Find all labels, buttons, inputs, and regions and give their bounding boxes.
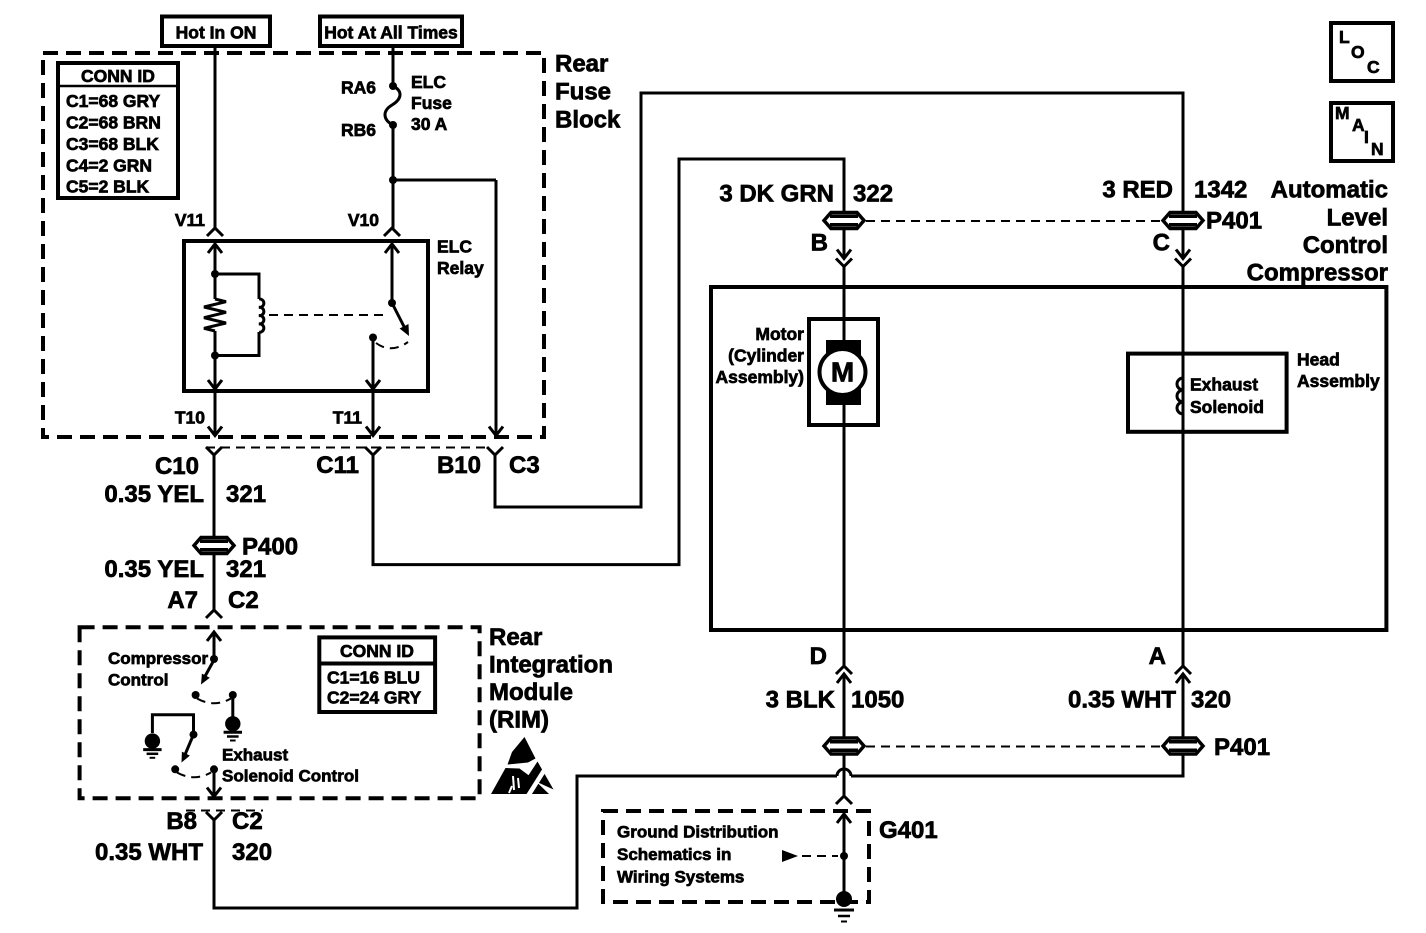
ground G401 <box>834 891 854 922</box>
svg-text:M: M <box>831 357 854 388</box>
svg-text:C10: C10 <box>155 453 199 480</box>
svg-text:Motor: Motor <box>755 324 804 344</box>
svg-text:Rear: Rear <box>555 51 608 78</box>
svg-text:1342: 1342 <box>1194 176 1247 203</box>
svg-text:B: B <box>811 229 828 256</box>
ground (RIM left) <box>143 733 161 757</box>
wire Hot At All Times to fuse <box>392 46 395 86</box>
node exhaust control contact <box>171 765 179 773</box>
connector lens P401 top <box>1163 207 1262 234</box>
svg-text:O: O <box>1351 42 1365 62</box>
label Motor (Cylinder Assembly) <box>715 324 804 387</box>
svg-text:C2=68 BRN: C2=68 BRN <box>66 113 161 133</box>
connector lens D (1050) <box>824 738 864 754</box>
node relay coil bottom <box>211 352 219 360</box>
svg-text:(Cylinder: (Cylinder <box>728 345 804 365</box>
fuse ELC Fuse 30A <box>341 72 452 140</box>
wire label 0.35 WHT 320 <box>95 839 272 866</box>
label Automatic Level Control Compressor <box>1247 176 1388 286</box>
svg-text:Rear: Rear <box>489 624 542 651</box>
connector A7 C2 <box>167 587 258 618</box>
wire relay T10 internal arrow <box>208 356 222 390</box>
svg-text:C2=24 GRY: C2=24 GRY <box>327 688 422 708</box>
relay switch input arrow <box>385 244 399 303</box>
connector G401 entry <box>836 796 938 844</box>
svg-text:0.35 YEL: 0.35 YEL <box>104 481 204 508</box>
svg-text:322: 322 <box>853 181 893 208</box>
wire P400 to A7 <box>213 554 216 610</box>
svg-text:N: N <box>1371 139 1384 159</box>
svg-text:CONN ID: CONN ID <box>340 641 414 661</box>
wire label 3 DK GRN 322 <box>719 181 893 208</box>
CONN ID table (fuse block) <box>58 63 178 198</box>
wire RIM output arrow <box>207 769 221 796</box>
svg-text:P401: P401 <box>1206 207 1262 234</box>
svg-text:L: L <box>1339 27 1350 47</box>
svg-text:I: I <box>1364 127 1369 147</box>
wire B10 to compressor C feed <box>495 93 1183 507</box>
svg-text:P401: P401 <box>1214 734 1270 761</box>
wire label 3 RED 1342 <box>1102 176 1247 203</box>
svg-text:C11: C11 <box>316 452 359 479</box>
connector V10 <box>348 210 400 236</box>
wire T10 to fuse block edge <box>175 391 222 436</box>
svg-text:A: A <box>1149 643 1166 670</box>
svg-text:C5=2 BLK: C5=2 BLK <box>66 177 150 197</box>
wire C10 to P400 <box>213 455 216 537</box>
svg-text:Solenoid Control: Solenoid Control <box>222 767 359 786</box>
wire right branch down to B10 <box>489 180 503 436</box>
node relay coil top <box>211 270 219 278</box>
dashed line D lens to P401 <box>866 746 1161 748</box>
svg-text:0.35 YEL: 0.35 YEL <box>104 556 204 583</box>
svg-text:Compressor: Compressor <box>1247 259 1388 286</box>
svg-text:0.35 WHT: 0.35 WHT <box>1068 687 1176 714</box>
label Exhaust Solenoid Control <box>222 746 359 786</box>
svg-text:RA6: RA6 <box>341 78 376 98</box>
box Hot At All Times <box>320 17 462 47</box>
svg-text:(RIM): (RIM) <box>489 707 549 734</box>
coil (relay winding) <box>215 274 264 356</box>
svg-text:321: 321 <box>226 481 266 508</box>
motor M1 <box>809 319 878 425</box>
svg-text:30 A: 30 A <box>411 114 448 134</box>
svg-text:C2: C2 <box>232 808 263 835</box>
svg-text:Solenoid: Solenoid <box>1190 397 1264 417</box>
connector C11 <box>316 447 381 479</box>
compressor box <box>711 287 1386 630</box>
connector C10 <box>155 447 222 480</box>
svg-text:Level: Level <box>1327 205 1388 232</box>
wire B to motor <box>843 267 846 631</box>
dashed arc compressor control <box>197 699 231 704</box>
LOC box <box>1331 23 1393 81</box>
wire fuse to V10 <box>392 125 395 228</box>
svg-text:D: D <box>810 643 827 670</box>
svg-text:Wiring Systems: Wiring Systems <box>617 868 744 887</box>
svg-text:T10: T10 <box>175 408 205 428</box>
svg-text:Integration: Integration <box>489 651 613 678</box>
svg-text:0.35 WHT: 0.35 WHT <box>95 839 203 866</box>
wire exhaust switch link <box>152 715 193 733</box>
exhaust solenoid box <box>1128 354 1287 432</box>
label Ground Distribution Schematics <box>617 823 778 887</box>
wire Hot In ON to V11 <box>214 46 217 228</box>
label Compressor Control <box>108 649 209 690</box>
svg-text:Head: Head <box>1297 350 1340 370</box>
svg-text:Automatic: Automatic <box>1271 176 1388 203</box>
svg-text:Control: Control <box>108 671 168 690</box>
svg-text:Hot In ON: Hot In ON <box>176 23 257 43</box>
svg-text:Assembly): Assembly) <box>715 367 804 387</box>
svg-text:3 DK GRN: 3 DK GRN <box>719 181 834 208</box>
svg-text:Compressor: Compressor <box>108 649 209 668</box>
svg-text:321: 321 <box>226 556 266 583</box>
connector B into compressor <box>811 229 852 267</box>
connector row dashed line B8 <box>186 810 263 812</box>
connector C into compressor <box>1153 229 1191 267</box>
coil exhaust solenoid <box>1177 378 1183 414</box>
connector lens 322 <box>824 213 864 229</box>
node G401 junction <box>840 852 848 860</box>
svg-text:B8: B8 <box>166 808 197 835</box>
label Rear Integration Module (RIM) <box>489 624 613 734</box>
svg-text:G401: G401 <box>879 817 938 844</box>
ground (RIM right) <box>224 695 242 741</box>
svg-text:C1=68 GRY: C1=68 GRY <box>66 91 161 111</box>
wire label 0.35 YEL 321 (lower) <box>104 556 266 583</box>
svg-text:Ground Distribution: Ground Distribution <box>617 823 778 842</box>
wire hop to A lens <box>851 755 1183 777</box>
CONN ID table (RIM) <box>319 637 435 712</box>
wire hop over G401 <box>837 769 851 776</box>
svg-text:CONN ID: CONN ID <box>81 66 155 86</box>
svg-text:1050: 1050 <box>851 687 904 714</box>
MAIN box <box>1331 103 1393 161</box>
connector D out of compressor <box>810 630 852 738</box>
label Head Assembly <box>1297 350 1380 392</box>
connector V11 <box>175 210 223 236</box>
node switch upper right <box>229 691 237 699</box>
wire label 0.35 WHT 320 (right) <box>1068 687 1231 714</box>
svg-text:Module: Module <box>489 679 573 706</box>
svg-text:C4=2 GRN: C4=2 GRN <box>66 156 152 176</box>
svg-text:C3=68 BLK: C3=68 BLK <box>66 134 159 154</box>
dashed line 322 to P401 <box>866 220 1161 222</box>
wire label 0.35 YEL 321 (upper) <box>104 481 266 508</box>
svg-text:Exhaust: Exhaust <box>222 746 288 765</box>
svg-text:C1=16 BLU: C1=16 BLU <box>327 668 420 688</box>
svg-text:ELC: ELC <box>437 237 472 257</box>
label Exhaust Solenoid <box>1190 375 1264 418</box>
connector A out of compressor <box>1149 630 1191 738</box>
svg-text:A7: A7 <box>167 587 198 614</box>
connector B10 <box>437 447 540 479</box>
RIM input arrow from A7 <box>207 632 221 659</box>
connector P400 <box>194 534 298 561</box>
Rear Fuse Block dashed box <box>43 53 544 437</box>
Rear Integration Module dashed box <box>80 627 480 798</box>
svg-text:Schematics in: Schematics in <box>617 845 731 864</box>
svg-text:320: 320 <box>1191 687 1231 714</box>
svg-text:M: M <box>1335 103 1350 123</box>
svg-text:3 RED: 3 RED <box>1102 176 1173 203</box>
svg-text:C2: C2 <box>228 587 259 614</box>
node exhaust control pivot <box>190 731 198 739</box>
wire G401 internal arrow <box>837 814 851 899</box>
wire relay T11 internal arrow <box>366 338 380 390</box>
relay switch arm <box>392 303 409 336</box>
resistor (relay) <box>204 274 226 356</box>
svg-text:Control: Control <box>1303 232 1388 259</box>
switch arm exhaust control <box>182 735 194 763</box>
svg-text:Exhaust: Exhaust <box>1190 375 1258 395</box>
dashed arc relay switch <box>376 342 408 348</box>
node relay switch pivot <box>388 299 396 307</box>
svg-text:C3: C3 <box>509 452 540 479</box>
svg-text:B10: B10 <box>437 452 481 479</box>
svg-text:Fuse: Fuse <box>411 93 452 113</box>
wire D lens to G401 <box>843 755 846 797</box>
dashed arc exhaust control <box>177 773 211 778</box>
connector row dashed line C10 C11 B10 <box>206 447 488 449</box>
wire T11 to fuse block edge <box>333 391 380 436</box>
wire C to solenoid <box>1182 267 1185 631</box>
svg-text:V10: V10 <box>348 210 379 230</box>
connector B8 C2 <box>166 808 262 835</box>
svg-text:Fuse: Fuse <box>555 79 611 106</box>
switch arm compressor control <box>201 660 214 685</box>
svg-text:V11: V11 <box>175 210 205 230</box>
box Hot In ON <box>162 17 270 47</box>
node compressor control contact <box>192 691 200 699</box>
wire label 3 BLK 1050 <box>766 687 905 714</box>
svg-text:320: 320 <box>232 839 272 866</box>
svg-text:3 BLK: 3 BLK <box>766 687 836 714</box>
svg-text:ELC: ELC <box>411 72 446 92</box>
G401 dashed box <box>603 811 869 902</box>
node junction below fuse <box>389 176 397 184</box>
ground arrow pointer <box>782 850 838 862</box>
svg-text:T11: T11 <box>333 408 362 428</box>
connector lens P401 bottom <box>1163 734 1270 761</box>
svg-text:C: C <box>1367 57 1380 77</box>
svg-text:RB6: RB6 <box>341 120 376 140</box>
ESD symbol <box>491 737 554 796</box>
svg-text:Relay: Relay <box>437 258 484 278</box>
node compressor control pivot <box>210 655 218 663</box>
svg-text:C: C <box>1153 229 1170 256</box>
wire C11 to compressor B feed <box>373 159 844 565</box>
label ELC Relay <box>437 237 484 279</box>
node relay switch contact <box>369 334 377 342</box>
node exhaust output <box>210 765 218 773</box>
ELC Relay box <box>184 241 428 391</box>
wire junction to right branch <box>393 179 496 182</box>
dashed link coil to switch <box>269 314 386 316</box>
relay coil input arrow <box>208 244 222 274</box>
svg-text:Hot At All Times: Hot At All Times <box>324 23 458 43</box>
label Rear Fuse Block <box>555 51 621 134</box>
svg-text:Assembly: Assembly <box>1297 371 1380 391</box>
svg-text:Block: Block <box>555 107 621 134</box>
wire B8 to compressor A feed <box>214 776 837 908</box>
